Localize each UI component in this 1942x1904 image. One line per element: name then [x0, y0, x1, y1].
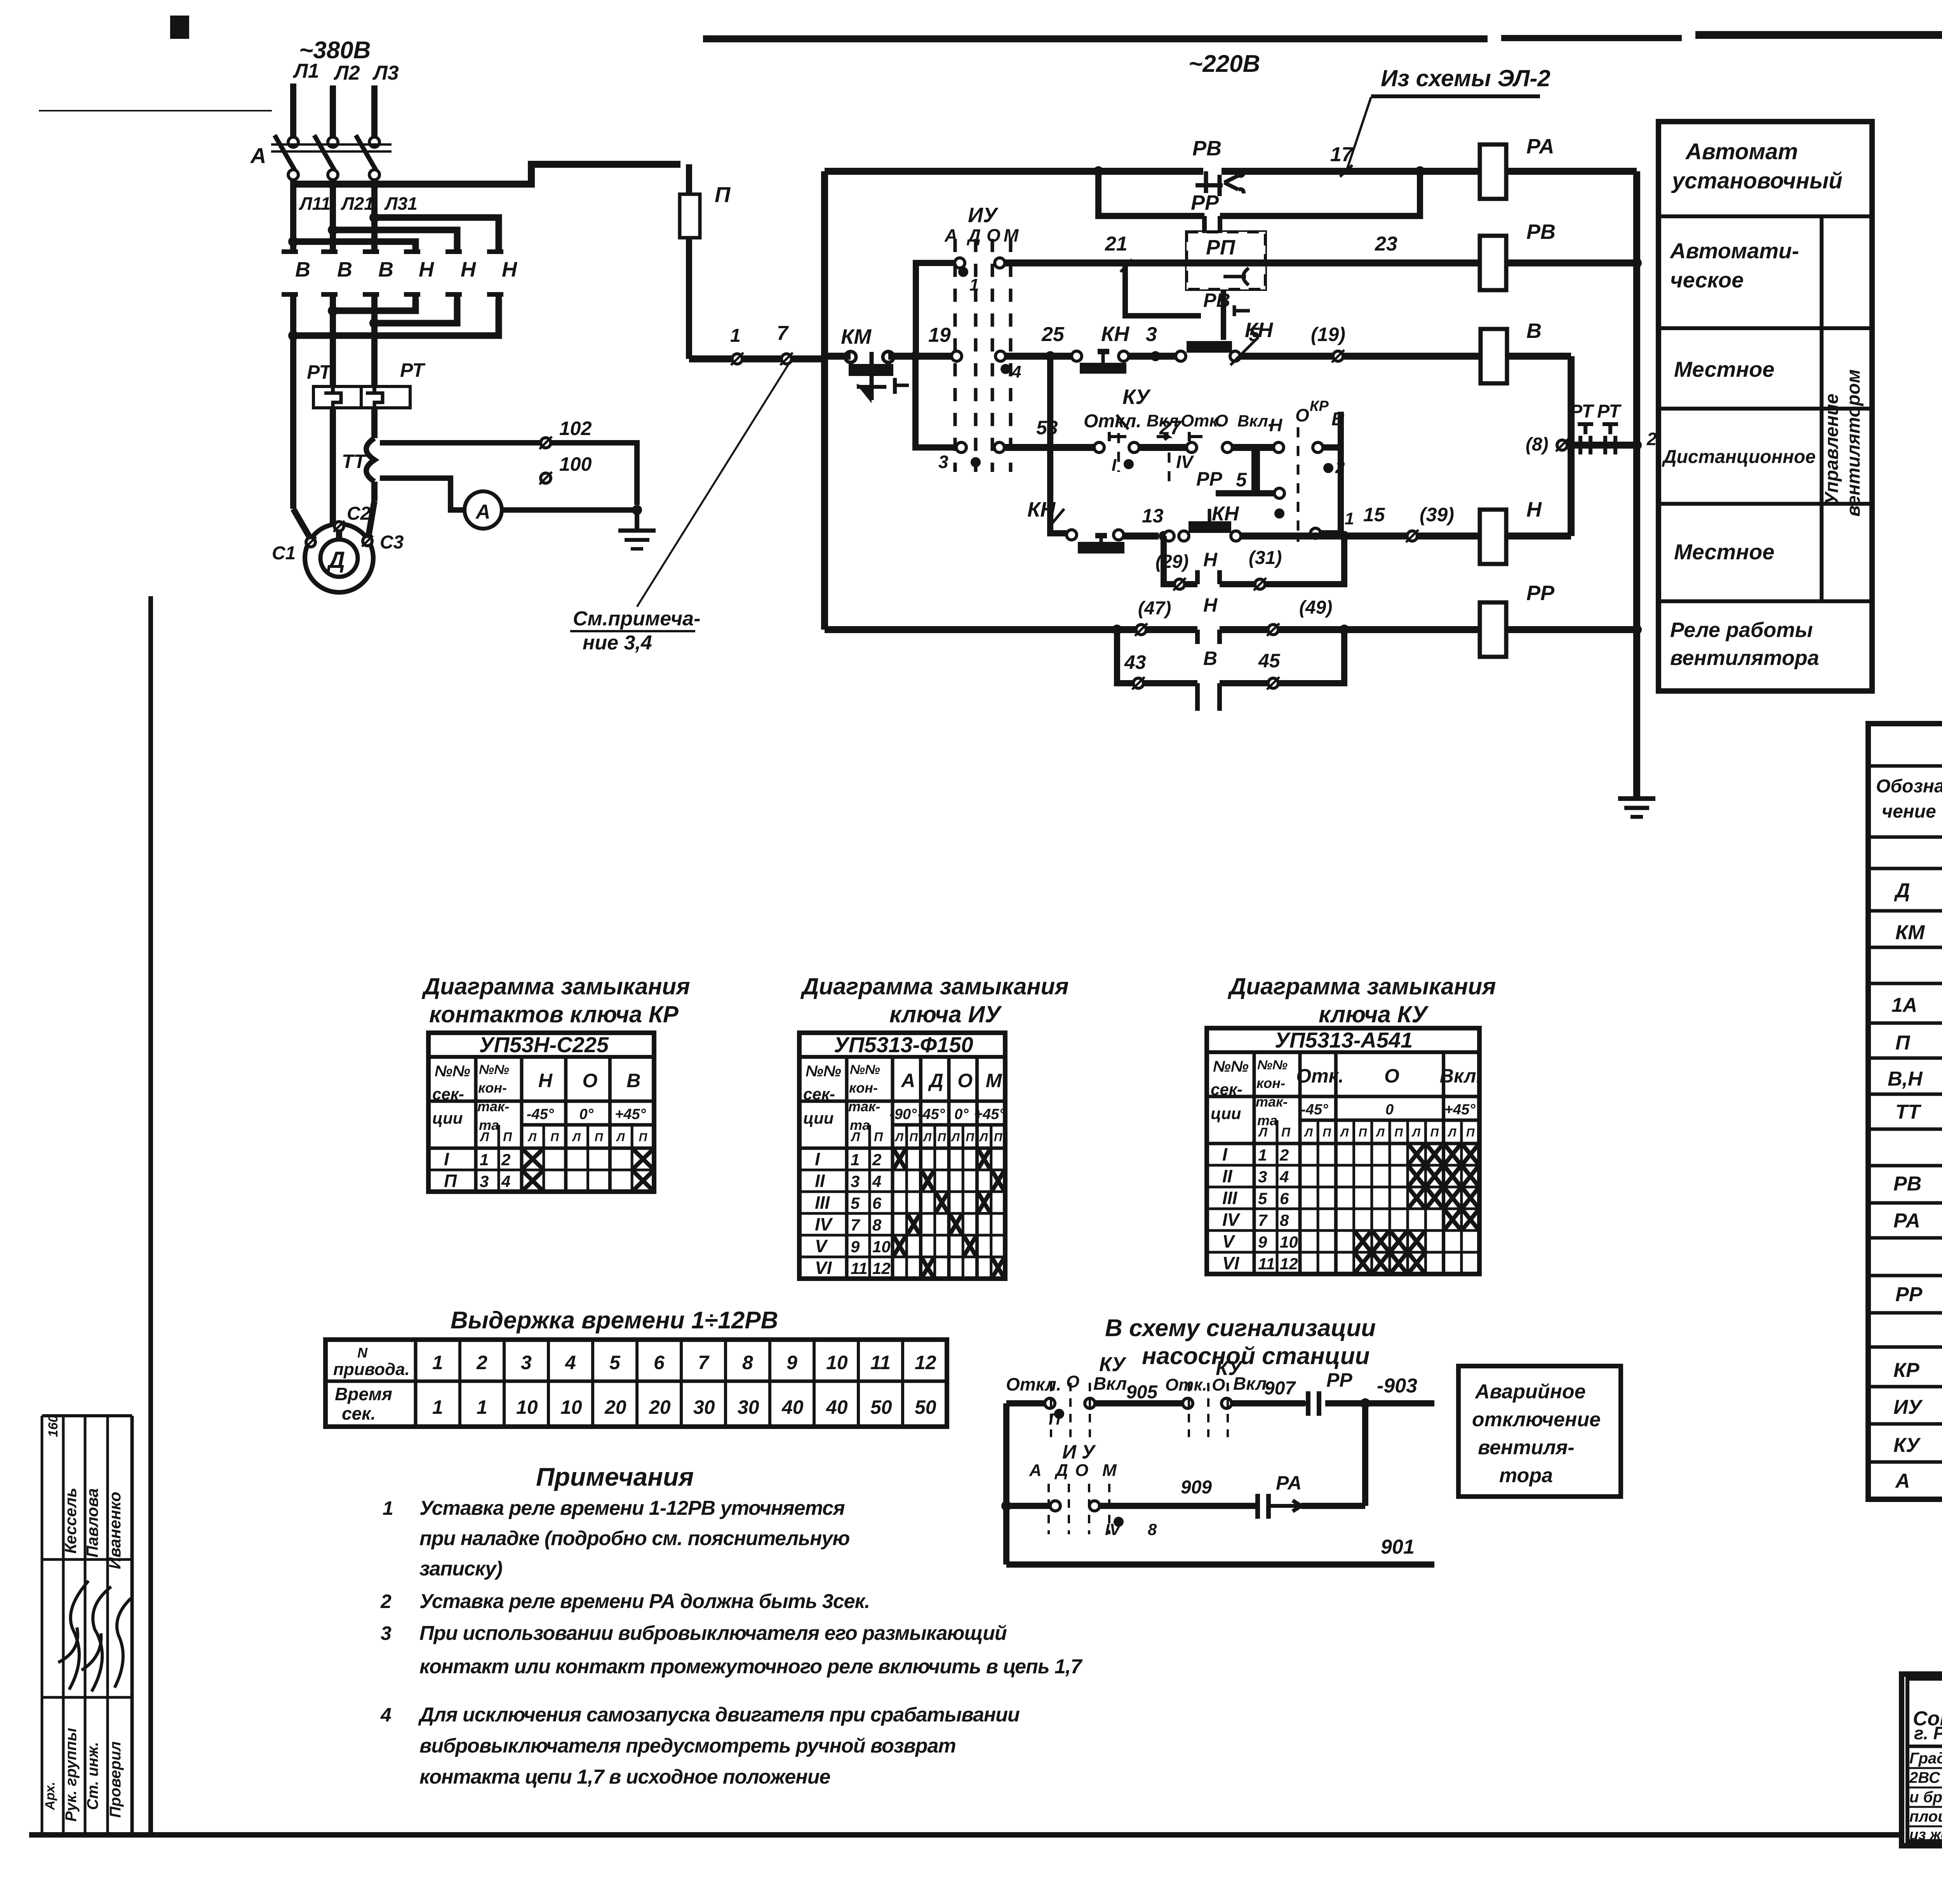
svg-text:привода.: привода. [333, 1360, 410, 1379]
svg-text:чение: чение [1882, 801, 1936, 822]
parallel branch with RR contact [1098, 171, 1420, 233]
svg-text:А: А [475, 501, 491, 523]
svg-text:П: П [1430, 1126, 1439, 1139]
phase labels L1 L2 L3 [292, 60, 399, 84]
svg-text:Д: Д [326, 547, 345, 573]
svg-text:2: 2 [872, 1150, 881, 1169]
svg-text:IV: IV [1176, 452, 1194, 472]
svg-text:23: 23 [1375, 233, 1397, 255]
svg-text:III: III [815, 1192, 830, 1213]
svg-text:С1: С1 [272, 543, 296, 564]
svg-text:Из схемы ЭЛ-2: Из схемы ЭЛ-2 [1381, 65, 1550, 91]
svg-text:11: 11 [851, 1259, 868, 1277]
svg-text:РР: РР [1196, 468, 1222, 490]
svg-text:2: 2 [501, 1150, 510, 1169]
svg-text:См.примеча-: См.примеча- [573, 607, 700, 630]
svg-text:9: 9 [787, 1352, 797, 1373]
svg-text:0°: 0° [579, 1106, 594, 1123]
svg-text:1: 1 [477, 1396, 487, 1418]
svg-text:вентилятора: вентилятора [1670, 646, 1819, 670]
label ~220V [1189, 50, 1260, 77]
svg-text:кон-: кон- [1256, 1075, 1285, 1091]
svg-text:ИУ: ИУ [1893, 1396, 1923, 1418]
phase wires from supply [293, 84, 374, 137]
svg-text:О: О [1066, 1372, 1079, 1391]
svg-text:КУ: КУ [1099, 1353, 1127, 1376]
svg-text:9: 9 [851, 1237, 860, 1256]
svg-text:Л21: Л21 [341, 193, 374, 214]
svg-text:Н: Н [1203, 549, 1218, 571]
svg-text:6: 6 [872, 1194, 882, 1212]
svg-text:Диаграмма замыкания: Диаграмма замыкания [1227, 973, 1496, 999]
svg-text:30: 30 [738, 1396, 759, 1418]
svg-text:17: 17 [1330, 143, 1354, 166]
svg-text:площадью 64м² с каркасом: площадью 64м² с каркасом [1909, 1808, 1942, 1825]
node labels L11 L21 L31 [299, 193, 418, 214]
signal circuit title [1105, 1315, 1376, 1370]
svg-text:21: 21 [1105, 233, 1128, 255]
svg-text:П: П [550, 1131, 559, 1144]
svg-text:№№: №№ [1213, 1058, 1249, 1075]
svg-text:Выдержка времени 1÷12РВ: Выдержка времени 1÷12РВ [451, 1307, 778, 1334]
svg-text:КМ: КМ [841, 325, 872, 348]
svg-text:3: 3 [381, 1622, 392, 1644]
svg-text:Л: Л [923, 1131, 932, 1144]
svg-text:VI: VI [1222, 1253, 1240, 1273]
svg-text:При использовании вибровыключа: При использовании вибровыключателя его р… [419, 1622, 1007, 1645]
svg-text:1: 1 [480, 1150, 489, 1169]
svg-text:РТ: РТ [400, 359, 426, 381]
svg-text:Время: Время [335, 1384, 392, 1404]
svg-text:8: 8 [872, 1216, 882, 1234]
svg-text:РА: РА [1893, 1210, 1920, 1232]
svg-text:102: 102 [559, 418, 592, 439]
svg-text:П: П [715, 182, 731, 207]
svg-text:5: 5 [1249, 324, 1260, 345]
svg-text:КН: КН [1027, 498, 1056, 521]
svg-text:КР: КР [1893, 1359, 1919, 1382]
svg-text:РП: РП [1206, 236, 1236, 259]
svg-text:6: 6 [1280, 1189, 1289, 1208]
universal switch IU dashed position lines [944, 204, 1019, 472]
svg-text:1: 1 [432, 1352, 443, 1373]
svg-text:4: 4 [1279, 1168, 1289, 1186]
svg-text:30: 30 [693, 1396, 715, 1418]
svg-text:1: 1 [1345, 509, 1354, 528]
svg-text:N: N [357, 1345, 368, 1361]
RV timed contact and KN chain down to V row [1125, 263, 1250, 340]
sheet top border line [39, 16, 1942, 111]
svg-text:4: 4 [565, 1352, 576, 1373]
svg-text:КР: КР [1310, 398, 1329, 414]
svg-text:Л: Л [1258, 1125, 1268, 1139]
label ~380V [299, 37, 371, 64]
element list table frame [1868, 724, 1942, 1499]
svg-text:О: О [1295, 405, 1309, 425]
svg-text:РТ: РТ [307, 361, 332, 383]
svg-text:Автомати-: Автомати- [1669, 238, 1799, 263]
svg-text:5: 5 [609, 1352, 621, 1373]
svg-text:контакта цепи 1,7 в исходное п: контакта цепи 1,7 в исходное положение [419, 1766, 830, 1788]
svg-text:(29): (29) [1155, 552, 1189, 572]
svg-text:100: 100 [559, 453, 592, 475]
svg-text:установочный: установочный [1671, 168, 1843, 193]
svg-text:при наладке (подробно см. пояс: при наладке (подробно см. пояснительную [419, 1527, 849, 1550]
svg-text:П: П [503, 1130, 512, 1144]
control box left wall [821, 171, 828, 630]
svg-text:Н: Н [419, 258, 434, 281]
svg-text:Н: Н [502, 258, 517, 281]
svg-text:кон-: кон- [849, 1080, 878, 1096]
svg-text:I: I [1222, 1144, 1228, 1164]
svg-text:А: А [1029, 1461, 1042, 1480]
svg-text:Вкл.: Вкл. [1440, 1065, 1482, 1087]
svg-text:тора: тора [1499, 1464, 1553, 1487]
svg-text:О: О [1384, 1065, 1399, 1087]
KN row with N coil circuit 13-15 [1027, 356, 1480, 553]
title block frame [1902, 1674, 1942, 1846]
svg-text:насосной станции: насосной станции [1142, 1343, 1370, 1370]
svg-text:В: В [378, 258, 393, 281]
svg-text:КУ: КУ [1122, 385, 1151, 409]
svg-text:8: 8 [1280, 1211, 1289, 1229]
svg-text:О: О [1215, 411, 1228, 430]
svg-text:О: О [1075, 1461, 1088, 1480]
svg-text:Откл.: Откл. [1006, 1374, 1061, 1394]
svg-text:Местное: Местное [1674, 540, 1775, 564]
svg-text:П: П [1281, 1125, 1291, 1139]
svg-text:10: 10 [560, 1396, 582, 1418]
svg-text:РА: РА [1276, 1472, 1302, 1494]
svg-text:А: А [944, 225, 957, 245]
svg-text:ключа КУ: ключа КУ [1319, 1001, 1429, 1027]
svg-text:Д: Д [1894, 879, 1910, 902]
svg-text:15: 15 [1363, 504, 1385, 526]
svg-text:РВ: РВ [1526, 220, 1556, 244]
motor D [272, 501, 404, 592]
svg-text:901: 901 [1381, 1536, 1415, 1558]
svg-text:Местное: Местное [1674, 357, 1775, 381]
svg-text:Откл.: Откл. [1084, 411, 1142, 432]
svg-text:Л: Л [1340, 1126, 1349, 1139]
svg-text:V: V [1222, 1231, 1236, 1251]
svg-text:III: III [1222, 1188, 1238, 1208]
time delay table [325, 1340, 947, 1427]
svg-text:Л: Л [1304, 1126, 1313, 1139]
svg-text:№№: №№ [806, 1063, 841, 1080]
svg-text:5: 5 [1258, 1189, 1267, 1208]
svg-text:2: 2 [1646, 429, 1657, 449]
signature block [42, 1415, 132, 1835]
svg-text:вентилятором: вентилятором [1843, 369, 1864, 517]
svg-text:КУ: КУ [1893, 1434, 1921, 1457]
svg-text:8: 8 [1148, 1520, 1157, 1539]
svg-text:905: 905 [1126, 1382, 1158, 1403]
contactor coil V [1481, 319, 1571, 445]
svg-text:5: 5 [851, 1194, 860, 1212]
bus from breaker to fuse [293, 164, 680, 189]
svg-text:I: I [444, 1149, 449, 1169]
svg-text:0: 0 [1385, 1102, 1394, 1118]
svg-text:записку): записку) [419, 1558, 502, 1580]
svg-text:3: 3 [1146, 323, 1157, 346]
svg-text:6: 6 [654, 1352, 665, 1373]
svg-text:IV: IV [815, 1214, 833, 1234]
svg-text:10: 10 [872, 1237, 891, 1256]
svg-text:1: 1 [1258, 1146, 1267, 1164]
svg-text:160: 160 [46, 1415, 61, 1437]
svg-text:1: 1 [730, 325, 741, 346]
svg-text:II: II [1222, 1166, 1233, 1186]
svg-text:П: П [874, 1130, 883, 1144]
contactor contacts V V V N N N [282, 184, 517, 509]
key diagram IU title [800, 973, 1069, 1027]
wire fuse to control box with nodes 1 and 7 [689, 322, 825, 365]
svg-text:УП5313-А541: УП5313-А541 [1275, 1028, 1413, 1052]
svg-text:Л3: Л3 [372, 62, 399, 84]
svg-text:-90°: -90° [889, 1106, 917, 1123]
KU switch row 53-27 [915, 356, 1255, 482]
svg-text:О: О [987, 225, 1001, 245]
svg-text:+45°: +45° [974, 1106, 1005, 1123]
time delay table title [451, 1307, 778, 1334]
svg-text:Л: Л [1411, 1126, 1421, 1139]
svg-text:25: 25 [1041, 323, 1065, 346]
pushbutton KM [841, 325, 909, 403]
svg-text:П: П [1895, 1032, 1911, 1054]
svg-text:контактов ключа КР: контактов ключа КР [429, 1001, 679, 1027]
svg-text:Н: Н [1526, 498, 1542, 521]
svg-text:27: 27 [1159, 417, 1182, 439]
svg-text:КН: КН [1101, 322, 1129, 346]
svg-text:4: 4 [380, 1704, 392, 1726]
svg-text:П: П [966, 1131, 974, 1144]
svg-text:Обозна-: Обозна- [1876, 776, 1942, 797]
svg-text:Н: Н [538, 1070, 553, 1091]
sheet left border line [148, 596, 153, 1835]
svg-text:Л2: Л2 [333, 62, 360, 84]
element list table texts [1876, 733, 1942, 1492]
bottom bus with RR coil and contacts 47-49 [825, 594, 1480, 644]
sheet bottom border line [29, 1832, 1942, 1838]
svg-text:А: А [900, 1070, 915, 1091]
svg-text:3: 3 [480, 1172, 489, 1190]
svg-text:11: 11 [870, 1352, 891, 1373]
svg-text:1: 1 [851, 1150, 860, 1169]
svg-text:ние 3,4: ние 3,4 [583, 632, 652, 654]
svg-text:Реле работы: Реле работы [1670, 618, 1813, 642]
svg-text:О: О [583, 1070, 598, 1091]
ground at ammeter [618, 510, 656, 549]
svg-text:ции: ции [432, 1109, 463, 1127]
svg-text:В: В [337, 258, 352, 281]
branch 43-45 with V contact [1117, 630, 1344, 711]
svg-text:ческое: ческое [1670, 268, 1744, 292]
svg-text:ключа ИУ: ключа ИУ [889, 1001, 1002, 1027]
svg-text:А: А [250, 143, 266, 168]
svg-text:и брызгальные с секциями: и брызгальные с секциями [1909, 1789, 1942, 1806]
svg-text:П: П [938, 1131, 947, 1144]
svg-text:~220В: ~220В [1189, 50, 1260, 77]
svg-text:4: 4 [872, 1172, 881, 1190]
svg-text:Аварийное: Аварийное [1474, 1380, 1586, 1403]
key diagram KU title [1227, 973, 1496, 1027]
relay coil RR [1480, 581, 1642, 657]
svg-text:I: I [1112, 456, 1117, 475]
svg-text:П: П [994, 1131, 1003, 1144]
TT secondary wires 102 and 100 [380, 418, 637, 510]
svg-text:1: 1 [969, 275, 979, 294]
svg-text:Павлова: Павлова [83, 1488, 101, 1558]
svg-text:Л: Л [616, 1131, 625, 1144]
svg-text:П: П [909, 1131, 918, 1144]
svg-text:2ВС 50 пленочные, капельные: 2ВС 50 пленочные, капельные [1909, 1769, 1942, 1786]
svg-text:В,Н: В,Н [1888, 1068, 1923, 1090]
svg-text:Л11: Л11 [299, 193, 331, 214]
svg-text:12: 12 [1280, 1255, 1298, 1273]
svg-text:Дистанционное: Дистанционное [1662, 447, 1816, 467]
svg-text:ИУ: ИУ [968, 204, 999, 227]
svg-text:Диаграмма замыкания: Диаграмма замыкания [421, 973, 690, 999]
svg-text:М: М [986, 1070, 1002, 1091]
svg-text:7: 7 [1258, 1211, 1268, 1229]
svg-text:Л: Л [572, 1131, 581, 1144]
intermediate relay RP dashed box [1187, 232, 1265, 289]
svg-text:Вкл.: Вкл. [1237, 412, 1272, 430]
svg-text:Д: Д [1054, 1461, 1068, 1480]
svg-text:вентиля-: вентиля- [1478, 1436, 1575, 1459]
svg-text:РР: РР [1191, 191, 1219, 214]
svg-text:ТТ: ТТ [1895, 1101, 1922, 1123]
svg-text:кон-: кон- [478, 1080, 507, 1096]
svg-text:М: М [1102, 1461, 1117, 1480]
key diagram KR table [428, 1032, 654, 1192]
svg-text:VI: VI [815, 1258, 832, 1278]
svg-text:Автомат: Автомат [1685, 139, 1798, 164]
svg-text:Н: Н [1269, 415, 1282, 435]
notes text [380, 1497, 1082, 1788]
svg-text:ции: ции [1211, 1104, 1241, 1123]
svg-text:0°: 0° [954, 1106, 969, 1123]
svg-text:№№: №№ [435, 1063, 470, 1080]
svg-text:2: 2 [476, 1352, 487, 1373]
svg-text:907: 907 [1264, 1378, 1296, 1399]
svg-text:V: V [815, 1236, 828, 1256]
svg-text:В: В [1203, 647, 1217, 669]
svg-text:(19): (19) [1311, 324, 1345, 345]
svg-text:3: 3 [1258, 1168, 1267, 1186]
svg-text:+45°: +45° [1444, 1102, 1476, 1118]
thermal contacts RT RT row [1526, 401, 1657, 455]
svg-text:О: О [957, 1070, 973, 1091]
svg-text:Л1: Л1 [292, 60, 319, 82]
svg-text:В: В [295, 258, 310, 281]
svg-text:Рук. группы: Рук. группы [63, 1728, 80, 1822]
svg-text:вибровыключателя предусмотреть: вибровыключателя предусмотреть ручной во… [419, 1735, 956, 1757]
svg-text:5: 5 [1236, 469, 1247, 491]
svg-text:43: 43 [1124, 651, 1146, 673]
svg-text:Примечания: Примечания [536, 1462, 694, 1491]
svg-text:Л: Л [1376, 1126, 1385, 1139]
relay coil RA [1480, 135, 1637, 199]
svg-text:2: 2 [1279, 1146, 1289, 1164]
svg-text:3: 3 [521, 1352, 532, 1373]
svg-text:IV: IV [1222, 1210, 1241, 1230]
svg-text:УП53Н-С225: УП53Н-С225 [479, 1032, 609, 1057]
svg-text:отключение: отключение [1472, 1408, 1601, 1431]
svg-text:Для исключения самозапуска дви: Для исключения самозапуска двигателя при… [418, 1704, 1020, 1726]
svg-text:П: П [1323, 1126, 1331, 1139]
svg-text:4: 4 [1011, 362, 1021, 381]
svg-text:10: 10 [516, 1396, 538, 1418]
svg-text:1А: 1А [1892, 994, 1917, 1016]
svg-text:-903: -903 [1377, 1375, 1417, 1397]
svg-text:4: 4 [501, 1172, 510, 1190]
svg-text:(8): (8) [1526, 434, 1549, 455]
svg-text:(47): (47) [1138, 598, 1171, 619]
key diagram IU table [799, 1032, 1005, 1279]
svg-text:10: 10 [1280, 1233, 1298, 1251]
current transformer TT [342, 438, 374, 501]
svg-text:Д: Д [966, 225, 981, 245]
svg-text:РР: РР [1895, 1283, 1923, 1306]
svg-text:Ст. инж.: Ст. инж. [84, 1742, 101, 1810]
svg-text:40: 40 [826, 1396, 848, 1418]
thermal relay RT heaters [307, 359, 426, 524]
svg-text:П: П [1394, 1126, 1403, 1139]
svg-text:Иваненко: Иваненко [106, 1492, 124, 1569]
svg-text:РР: РР [1526, 581, 1555, 605]
label Iz shemy EL-2 [1347, 65, 1550, 169]
svg-text:45: 45 [1258, 650, 1281, 672]
svg-text:И У: И У [1062, 1441, 1096, 1463]
svg-text:РВ: РВ [1893, 1173, 1921, 1195]
svg-text:20: 20 [604, 1396, 626, 1418]
svg-text:3: 3 [938, 452, 948, 472]
svg-text:контакт или контакт промежуто: контакт или контакт промежуточного реле … [419, 1655, 1082, 1678]
key diagram KR title [421, 973, 690, 1027]
svg-text:3: 3 [851, 1172, 860, 1190]
svg-text:-45°: -45° [1301, 1102, 1328, 1118]
circuit breaker A (3-pole switch) [250, 135, 392, 184]
svg-text:КУ: КУ [1216, 1357, 1243, 1380]
svg-text:I: I [815, 1149, 820, 1169]
svg-text:II: II [815, 1171, 825, 1191]
svg-text:С2: С2 [347, 503, 371, 524]
svg-text:Л: Л [1448, 1126, 1457, 1139]
notes heading [536, 1462, 694, 1491]
svg-text:П: П [444, 1171, 457, 1191]
svg-text:Л: Л [480, 1130, 489, 1144]
emergency shutdown box [1458, 1366, 1621, 1497]
note reference see notes 3 4 [570, 364, 788, 654]
svg-text:В схему сигнализации: В схему сигнализации [1105, 1315, 1376, 1342]
svg-text:7: 7 [698, 1352, 710, 1373]
svg-text:РВ: РВ [1192, 137, 1222, 160]
main V row circuit 19-25-3-5 [825, 323, 1082, 381]
svg-text:+45°: +45° [615, 1106, 646, 1123]
svg-text:2: 2 [380, 1591, 392, 1612]
svg-text:Л: Л [527, 1131, 537, 1144]
svg-text:909: 909 [1181, 1477, 1212, 1498]
svg-text:20: 20 [649, 1396, 671, 1418]
svg-text:Л31: Л31 [384, 193, 418, 214]
svg-text:Л: Л [979, 1131, 988, 1144]
svg-text:В: В [626, 1070, 640, 1091]
top line circuit 17 with relay RA [825, 137, 1480, 214]
svg-text:1: 1 [383, 1497, 393, 1519]
svg-text:Проверил: Проверил [107, 1741, 124, 1818]
